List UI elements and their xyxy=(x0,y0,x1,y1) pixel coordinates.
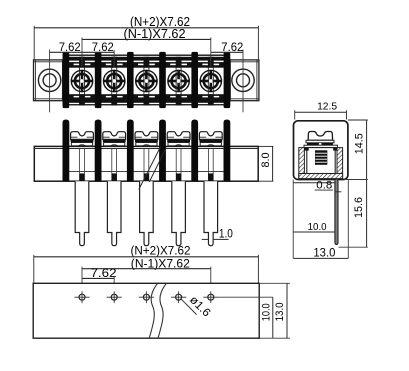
terminal screw 1 (top view) xyxy=(71,68,92,95)
break line left xyxy=(149,283,157,338)
pin hole 4 (bottom view) xyxy=(171,291,186,303)
clamp washer 4 (front view) xyxy=(167,140,190,143)
solder pin (side view) xyxy=(335,180,338,245)
svg-text:(N-1)X7.62: (N-1)X7.62 xyxy=(124,27,186,41)
dim (N-1)X7.62 line (bottom) xyxy=(82,268,211,270)
solder pin 3 (front view) xyxy=(140,181,154,245)
left ear hole xyxy=(38,69,60,91)
barrier 1 (front view) xyxy=(63,120,70,182)
terminal screw 4 (top view) xyxy=(168,68,189,95)
dim 8.0 extension lines xyxy=(258,146,273,181)
pin slot lines cell 1 xyxy=(80,149,85,181)
top extension (14.5) xyxy=(348,119,368,121)
base plate line xyxy=(293,182,335,184)
solder pin 4 (front view) xyxy=(172,181,186,245)
barrier 2 (front view) xyxy=(95,120,102,182)
wire clamp 4 (front view) xyxy=(168,143,189,146)
(N+2) bottom left extension xyxy=(33,255,35,283)
washer plate (side view) xyxy=(306,140,334,143)
dim 13.0 line (bottom view) xyxy=(286,283,288,338)
wall tab right (side view) xyxy=(333,148,337,151)
pin slot lines cell 5 xyxy=(208,149,213,181)
clamp washer 2 (front view) xyxy=(103,140,126,143)
solder pin 2 (front view) xyxy=(107,181,121,245)
right mounting ear xyxy=(230,60,259,101)
solder pin 5 (front view) xyxy=(204,181,218,245)
screw head 2 (front view) xyxy=(103,132,126,140)
dim (N+2)X7.62 line (top) xyxy=(34,27,258,29)
terminal screw 5 (top view) xyxy=(200,68,221,95)
dim 7.62 line #3 xyxy=(211,51,243,53)
terminal screw 2 (top view) xyxy=(104,68,125,95)
pin tip extension (15.6) xyxy=(339,246,368,248)
barrier 5 (front view) xyxy=(191,120,198,182)
pin section mark 4 xyxy=(176,173,181,180)
(N+2) bottom right extension xyxy=(257,255,259,283)
svg-text:1.0: 1.0 xyxy=(219,226,233,240)
clamp top flange (side view) xyxy=(304,145,337,147)
bottom body extension (14.5/15.6) xyxy=(345,179,368,181)
dim 7.62 line #2 xyxy=(82,51,114,53)
barrier wall 5 (top view) xyxy=(191,52,198,108)
section leader diagonal line A xyxy=(139,147,161,190)
top view lower black band xyxy=(63,94,231,105)
7.62 bottom extension xyxy=(113,276,115,290)
pin slot lines cell 4 xyxy=(176,149,181,181)
threaded stud (side view) xyxy=(315,150,327,165)
barrier 3 (front view) xyxy=(127,120,134,182)
(N-1) bottom left extension xyxy=(81,267,83,291)
svg-text:15.6: 15.6 xyxy=(353,197,365,218)
solder pin 1 (front view) xyxy=(75,181,89,245)
barrier wall 3 (top view) xyxy=(127,52,134,108)
svg-text:8.0: 8.0 xyxy=(260,153,272,168)
barrier 6 (front view) xyxy=(224,120,231,182)
left mounting ear xyxy=(34,60,63,101)
pin section mark 1 xyxy=(79,173,84,180)
left hatched wall xyxy=(299,148,305,178)
clamp nut plate (side view) xyxy=(307,143,333,145)
screw1 centerline extension xyxy=(81,37,83,67)
screw2 centerline extension xyxy=(113,50,115,67)
dim (N+2) left extension xyxy=(33,26,35,61)
barrier 4 (front view) xyxy=(159,120,166,182)
right ear hole xyxy=(232,69,254,91)
barrier wall 1 (top view) xyxy=(63,52,70,108)
right ear centerline xyxy=(242,50,244,113)
wire clamp 2 (front view) xyxy=(104,143,125,146)
dim 12.5 line xyxy=(295,111,347,113)
dim 14.5/15.6 line xyxy=(366,120,368,247)
dim (N+2) right extension xyxy=(257,26,259,61)
top edge extension xyxy=(259,282,290,284)
12.5 right extension xyxy=(346,110,348,119)
pin slot lines cell 2 xyxy=(112,149,117,181)
dim 0.8 tick line xyxy=(335,191,341,193)
pin hole 5 (bottom view) xyxy=(203,291,218,303)
svg-text:13.0: 13.0 xyxy=(274,302,286,321)
screw head 5 (front view) xyxy=(199,132,222,140)
pin hole 2 (bottom view) xyxy=(107,291,122,303)
right extension (13.0 side) xyxy=(347,180,349,259)
front rail inner shelf line xyxy=(66,171,227,173)
terminal screw 3 (top view) xyxy=(136,68,157,95)
top view cell 5 molding slots xyxy=(197,57,225,106)
wire clamp 1 (front view) xyxy=(71,143,92,146)
top view upper black band xyxy=(63,57,231,68)
dim 7.62 line #1 xyxy=(50,51,82,53)
hatched base xyxy=(299,174,343,179)
dim 8.0 line xyxy=(272,146,274,181)
pin hole 3 (bottom view) xyxy=(139,291,154,303)
top view body top edge xyxy=(63,54,231,56)
dim (N-1)X7.62 line (top) xyxy=(82,38,211,40)
clamp washer 5 (front view) xyxy=(199,140,222,143)
wire clamp 3 (front view) xyxy=(136,143,157,146)
pin section mark 5 xyxy=(208,173,213,180)
screw head 1 (front view) xyxy=(71,132,94,140)
wire clamp 5 (front view) xyxy=(200,143,221,146)
dim (N+2)X7.62 line (bottom) xyxy=(34,256,259,258)
dim 10.0 line (bottom view) xyxy=(272,297,274,338)
barrier wall 2 (top view) xyxy=(95,52,102,108)
bottom edge extension xyxy=(259,337,290,339)
pin section mark 3 xyxy=(144,173,149,180)
top view cell 1 molding slots xyxy=(68,57,96,106)
svg-text:10.0: 10.0 xyxy=(261,303,273,321)
hole5 extension line xyxy=(218,296,272,298)
hole diameter leader xyxy=(181,299,196,314)
screw head (side view) xyxy=(308,132,333,141)
barrier wall 4 (top view) xyxy=(159,52,166,108)
pin section mark 2 xyxy=(112,173,117,180)
top view cell 4 molding slots xyxy=(165,57,193,106)
screw head 3 (front view) xyxy=(135,132,158,140)
dim 1.0 lines xyxy=(202,238,229,240)
left ear centerline xyxy=(49,50,51,113)
screw5 centerline extension xyxy=(210,37,212,67)
wall tab left (side view) xyxy=(304,148,308,151)
side view housing xyxy=(294,121,348,180)
pin slot lines cell 3 xyxy=(144,149,149,181)
(N-1) bottom right extension xyxy=(210,267,212,291)
front rail inner top line xyxy=(34,148,258,150)
svg-text:14.5: 14.5 xyxy=(353,133,365,154)
svg-text:10.0: 10.0 xyxy=(308,221,327,233)
clamp frame (side view) xyxy=(307,148,335,174)
pin hole 1 (bottom view) xyxy=(74,291,89,303)
barrier wall 6 (top view) xyxy=(224,52,231,108)
left extension line (10/13) xyxy=(292,180,294,259)
top view cell 3 molding slots xyxy=(133,57,161,106)
front view rail body xyxy=(34,146,258,181)
section leader diagonal line B xyxy=(149,148,166,182)
clamp washer 3 (front view) xyxy=(135,140,158,143)
dim 7.62 line (bottom) xyxy=(82,277,114,279)
dim 10.0 line (side) xyxy=(293,231,335,233)
12.5 left extension xyxy=(294,110,296,119)
dim 13.0 line (side) xyxy=(293,257,348,259)
clamp washer 1 (front view) xyxy=(71,140,94,143)
svg-text:12.5: 12.5 xyxy=(317,101,337,113)
right hatched wall xyxy=(337,148,343,178)
svg-text:13.0: 13.0 xyxy=(313,247,335,259)
screw head 4 (front view) xyxy=(167,132,190,140)
top view cell 2 molding slots xyxy=(100,57,128,106)
dim 0.8 line xyxy=(315,189,333,191)
break line right xyxy=(158,283,166,338)
bottom view outline xyxy=(33,283,259,338)
